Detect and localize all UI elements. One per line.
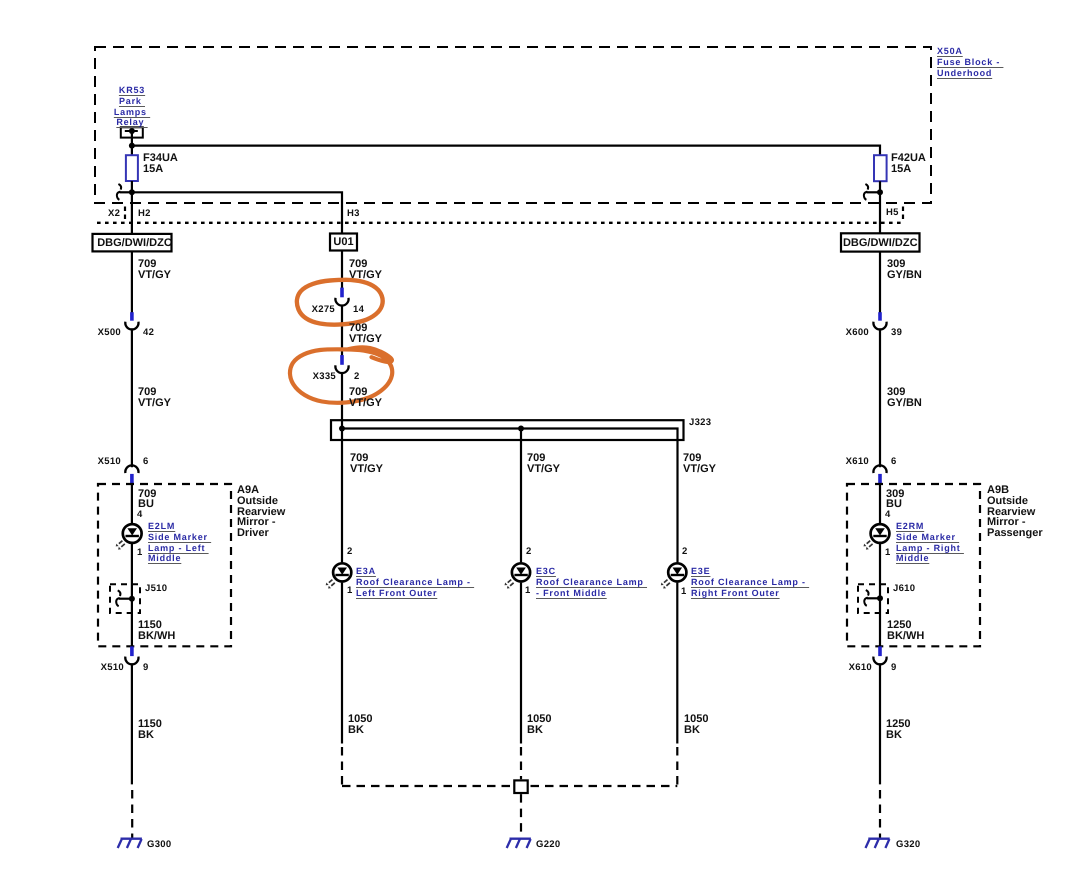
connector X610 pin 9 xyxy=(873,646,886,664)
wire dashed square to G220 xyxy=(520,794,522,838)
node under F34UA xyxy=(129,189,135,195)
label wire 309 GY/BN right lower xyxy=(886,387,921,409)
node J323 middle xyxy=(518,426,524,432)
wire E3E down xyxy=(676,583,678,744)
label F42UA 15A xyxy=(890,153,925,175)
label pin 4 E2LM xyxy=(137,510,143,520)
label X500 xyxy=(98,328,121,338)
wire X335 to J323 xyxy=(341,372,343,429)
component A9B dashed box xyxy=(847,484,980,646)
wire dashed collector horizontal xyxy=(342,785,677,787)
label X2 xyxy=(107,209,119,219)
label pin 4 E2RM xyxy=(884,510,890,520)
wire X610-9 down to ground lead xyxy=(879,663,881,784)
lamp E2RM xyxy=(864,524,890,550)
lamp E3C xyxy=(505,563,531,588)
label G320 xyxy=(896,840,920,850)
label wire 709 VT/GY left lower xyxy=(138,387,171,409)
label wire 709 BU 4 inside A9A xyxy=(138,489,156,510)
wire X500 to X510 xyxy=(131,328,133,467)
fuse block X50A dashed outline xyxy=(95,47,931,203)
label wire 709 VT/GY E3C branch xyxy=(527,453,560,475)
wire U01 to X275 xyxy=(341,251,343,289)
label wire 709 VT/GY mid lower xyxy=(349,387,382,409)
connector X510 pin 6 xyxy=(125,465,138,484)
label wire 709 VT/GY mid between connectors xyxy=(349,323,382,345)
label pin 2 E3E xyxy=(682,547,688,557)
lamp E2LM xyxy=(116,524,142,550)
label wire 1150 BK/WH xyxy=(138,620,175,642)
node under F42UA xyxy=(877,189,883,195)
wire J323 to E3A xyxy=(341,429,343,563)
wire X275 to X335 xyxy=(341,305,343,356)
label wire 1050 BK E3C xyxy=(527,714,551,736)
link KR53 Park Lamps Relay xyxy=(104,85,160,128)
connector X500 pin 42 xyxy=(125,312,138,329)
label pin 9 xyxy=(143,663,149,673)
label wire 1150 BK xyxy=(138,719,162,741)
box DBG/DWI/DZC right xyxy=(841,233,920,251)
component A9A dashed box xyxy=(98,484,231,646)
link X50A Fuse Block - Underhood xyxy=(937,46,1003,78)
label X610 pin 6 row xyxy=(846,457,869,467)
wire left DBG to X500 xyxy=(131,251,133,312)
wire E2LM to J510 xyxy=(131,544,133,647)
clip at J610 xyxy=(864,590,868,606)
wire X600 to X610 xyxy=(879,328,881,467)
label wire 709 VT/GY E3A branch xyxy=(349,453,382,475)
wire stub clip right fuse xyxy=(867,191,881,193)
clip at J510 xyxy=(116,590,120,606)
wire E3A down xyxy=(341,583,343,744)
annotation orange circle around X275 xyxy=(297,280,383,325)
label X510 pin 6 row xyxy=(98,457,121,467)
connector X610 pin 6 xyxy=(873,465,886,484)
link E3E Roof Clearance Lamp - Right Front Outer xyxy=(691,566,809,598)
wire dashed ground lead G320 xyxy=(879,790,881,838)
wire dashed E3C to square xyxy=(520,747,522,779)
connector X275 pin 14 xyxy=(335,288,348,306)
splice J510 dashed box xyxy=(110,584,140,613)
link E3A Roof Clearance Lamp - Left Front Outer xyxy=(356,566,474,598)
divider X2/H2 xyxy=(124,207,126,222)
label pin 2 xyxy=(353,371,359,381)
label wire 709 VT/GY E3E branch xyxy=(683,453,716,475)
wire dashed E3E to collector xyxy=(676,747,678,786)
label X510 pin 9 row xyxy=(101,663,124,673)
wire X510-9 down to ground lead xyxy=(131,663,133,784)
label X610 pin 9 row xyxy=(849,663,872,673)
label wire 1050 BK E3E xyxy=(683,714,707,736)
label J610 xyxy=(893,584,915,594)
wire J323 to E3E xyxy=(676,441,678,562)
box U01 xyxy=(330,234,357,251)
lamp E3A xyxy=(326,563,352,588)
label pin 42 xyxy=(143,328,154,338)
divider H5 xyxy=(902,207,904,222)
wire X510-6 into lamp xyxy=(131,484,133,523)
wire stub clip left fuse xyxy=(120,191,132,193)
label pin 1 E2RM xyxy=(885,548,891,558)
node J323 left xyxy=(339,426,345,432)
wire relay to junction xyxy=(131,131,133,155)
wire branch to U01 xyxy=(132,192,342,233)
connector X335 pin 2 xyxy=(335,355,348,373)
node feed junction left xyxy=(129,143,135,149)
label wire 709 VT/GY left upper xyxy=(138,259,171,281)
wire right DBG to X600 xyxy=(879,252,881,313)
wire E3C down xyxy=(520,583,522,744)
box DBG/DWI/DZC left xyxy=(93,234,172,252)
label X335 xyxy=(312,371,335,381)
label DBG/DWI/DZC left xyxy=(94,237,173,248)
label DBG/DWI/DZC right xyxy=(841,237,920,248)
label pin 14 xyxy=(353,304,364,314)
splice J510 node xyxy=(129,596,135,602)
harness connector row dotted line xyxy=(97,222,901,224)
wire dashed ground lead G300 xyxy=(131,790,133,838)
label H5 xyxy=(886,208,899,218)
wire dashed E3A to collector xyxy=(341,747,343,786)
label wire 309 GY/BN right upper xyxy=(886,259,921,281)
label G300 xyxy=(147,840,171,850)
label J510 xyxy=(145,584,167,594)
label wire 709 VT/GY mid upper xyxy=(349,259,382,281)
splice J610 stub xyxy=(867,597,880,599)
connector square to G220 xyxy=(514,780,527,793)
relay KR53 contact symbol xyxy=(121,127,143,137)
connector X510 pin 9 xyxy=(125,646,138,664)
link E2LM Side Marker Lamp - Left Middle xyxy=(148,521,211,564)
label pin 1 E3C xyxy=(525,586,531,596)
label X275 xyxy=(312,304,335,314)
wire F42UA bottom to DBG box right xyxy=(879,181,881,233)
label G220 xyxy=(535,840,559,850)
label wire 1250 BK/WH xyxy=(887,620,924,642)
wire J323 to E3C xyxy=(520,429,522,563)
splice J610 node xyxy=(877,595,883,601)
label A9B component description xyxy=(987,485,1043,539)
label pin 6 right xyxy=(891,457,897,467)
wire X610-6 into lamp xyxy=(879,484,881,523)
label pin 1 E3A xyxy=(347,586,353,596)
ground G320 xyxy=(866,839,890,848)
label U01 xyxy=(330,237,357,248)
fuse F42UA xyxy=(874,155,887,181)
label wire 1050 BK E3A xyxy=(348,714,372,736)
clip at F42UA output xyxy=(864,184,868,200)
label J323 xyxy=(689,417,711,427)
label pin 6 xyxy=(143,457,149,467)
label F34UA 15A xyxy=(143,153,178,175)
splice J610 dashed box xyxy=(858,584,888,613)
label pin 9 right xyxy=(891,663,897,673)
label pin 2 E3C xyxy=(526,547,532,557)
label wire 1250 BK xyxy=(885,719,909,741)
label X600 xyxy=(846,328,869,338)
label pin 1 E3E xyxy=(681,587,687,597)
ground G220 xyxy=(507,839,531,848)
splice J510 stub xyxy=(119,598,132,600)
label A9A component description xyxy=(237,485,285,539)
label H3 xyxy=(347,209,360,219)
label wire 309 BU inside A9B xyxy=(886,489,904,510)
link E3C Roof Clearance Lamp - Front Middle xyxy=(535,566,646,598)
label pin 39 xyxy=(890,328,901,338)
annotation orange circle around X335 xyxy=(290,347,392,403)
fuse F34UA xyxy=(126,155,138,181)
clip at F34UA output xyxy=(117,184,121,200)
label H2 xyxy=(138,209,151,219)
splice pack J323 inner bus xyxy=(342,429,678,441)
ground G300 xyxy=(118,839,142,848)
link E2RM Side Marker Lamp - Right Middle xyxy=(896,521,964,564)
connector X600 pin 39 xyxy=(873,312,886,329)
wire E2RM to J610 xyxy=(879,544,881,647)
splice pack J323 outer box xyxy=(331,420,684,440)
wire feed horizontal to right fuse xyxy=(132,146,880,156)
label pin 2 E3A xyxy=(347,547,353,557)
lamp E3E xyxy=(661,563,687,588)
wire F34UA bottom to DBG box xyxy=(131,181,133,234)
label pin 1 E2LM xyxy=(137,548,143,558)
